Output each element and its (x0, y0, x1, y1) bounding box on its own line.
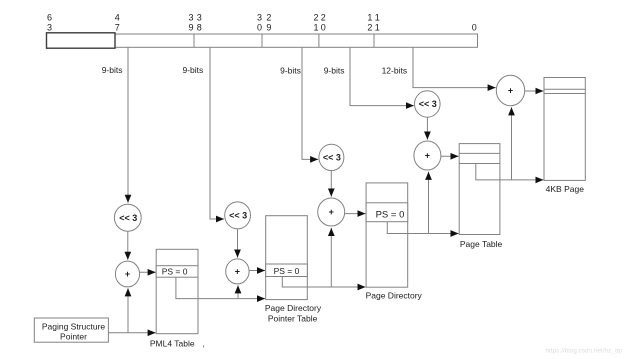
svg-text:2: 2 (321, 12, 326, 22)
svg-text:Pointer Table: Pointer Table (268, 313, 318, 323)
svg-text:PML4 Table: PML4 Table (150, 339, 195, 349)
svg-text:+: + (329, 207, 334, 217)
svg-text:9-bits: 9-bits (183, 65, 204, 75)
svg-text:9: 9 (188, 22, 193, 32)
svg-text:1: 1 (375, 12, 380, 22)
svg-text:0: 0 (257, 22, 262, 32)
svg-text:,: , (203, 339, 205, 349)
svg-text:3: 3 (197, 12, 202, 22)
svg-text:https://blog.csdn.net/hz_op: https://blog.csdn.net/hz_op (546, 347, 623, 354)
svg-text:2: 2 (266, 12, 271, 22)
svg-text:Page Directory: Page Directory (366, 290, 423, 300)
svg-text:+: + (425, 151, 430, 161)
svg-text:9-bits: 9-bits (324, 66, 345, 76)
svg-text:6: 6 (47, 12, 52, 22)
svg-text:0: 0 (321, 22, 326, 32)
svg-text:3: 3 (188, 12, 193, 22)
svg-text:0: 0 (472, 22, 477, 32)
svg-text:9: 9 (266, 22, 271, 32)
svg-text:1: 1 (375, 22, 380, 32)
svg-text:+: + (235, 267, 240, 277)
svg-text:PS = 0: PS = 0 (376, 209, 405, 220)
svg-text:3: 3 (47, 22, 52, 32)
svg-text:Pointer: Pointer (60, 332, 87, 342)
svg-text:PS = 0: PS = 0 (162, 267, 188, 277)
svg-text:Page Directory: Page Directory (265, 303, 322, 313)
svg-text:<< 3: << 3 (323, 153, 341, 163)
svg-text:1: 1 (367, 12, 372, 22)
svg-text:4: 4 (115, 12, 120, 22)
svg-text:2: 2 (367, 22, 372, 32)
svg-text:+: + (508, 86, 513, 96)
svg-text:7: 7 (115, 22, 120, 32)
svg-text:2: 2 (313, 12, 318, 22)
svg-text:<< 3: << 3 (119, 213, 137, 223)
svg-text:PS = 0: PS = 0 (274, 266, 300, 276)
svg-text:+: + (125, 269, 130, 279)
svg-text:Page Table: Page Table (460, 239, 503, 249)
svg-text:9-bits: 9-bits (280, 66, 301, 76)
svg-text:<< 3: << 3 (229, 211, 247, 221)
svg-text:1: 1 (313, 22, 318, 32)
svg-text:4KB Page: 4KB Page (546, 184, 585, 194)
svg-text:12-bits: 12-bits (382, 66, 408, 76)
svg-text:8: 8 (197, 22, 202, 32)
svg-text:<< 3: << 3 (419, 99, 437, 109)
svg-text:3: 3 (257, 12, 262, 22)
svg-text:Paging Structure: Paging Structure (42, 321, 106, 331)
svg-text:9-bits: 9-bits (102, 65, 123, 75)
